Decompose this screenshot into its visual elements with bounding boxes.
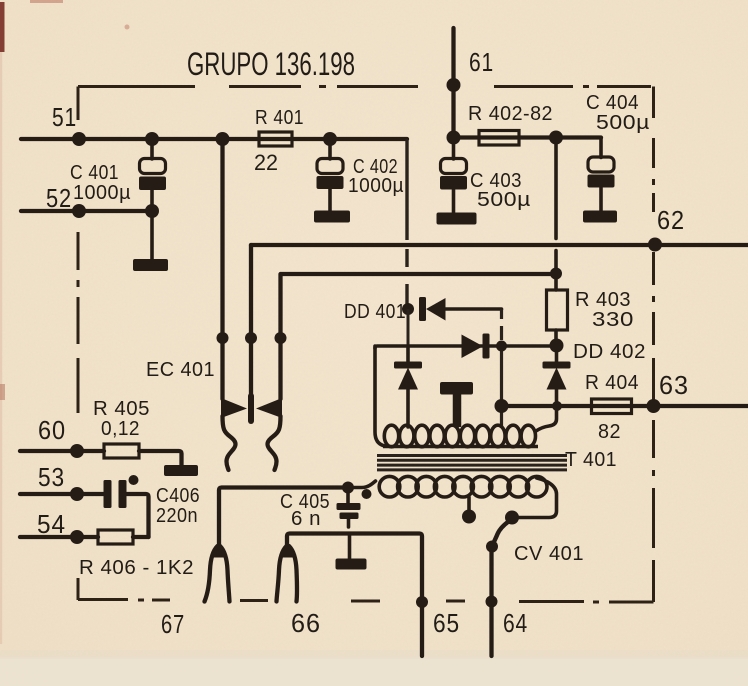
svg-text:500µ: 500µ xyxy=(596,112,650,134)
EC401 right arrow electrode xyxy=(256,398,282,418)
pin label 53 xyxy=(38,462,65,492)
wire R406 to node xyxy=(133,535,149,539)
svg-text:65: 65 xyxy=(433,608,460,638)
pin label 67 xyxy=(161,609,185,639)
transformer secondary center tap xyxy=(467,497,471,511)
wire 52 row xyxy=(21,209,152,213)
resistor R406 xyxy=(98,530,133,544)
label EC 401 xyxy=(146,359,215,381)
svg-text:1000µ: 1000µ xyxy=(73,182,131,204)
pin label 51 xyxy=(52,102,77,132)
value 1000u C402 xyxy=(348,175,404,197)
pin label 66 xyxy=(291,608,321,638)
label C 401 xyxy=(70,162,119,184)
label C406 xyxy=(156,485,200,507)
pin label 52 xyxy=(46,183,72,213)
connector fork 66 xyxy=(277,545,298,602)
wire 53 row xyxy=(20,492,104,496)
junction dot 64 boundary xyxy=(486,596,498,608)
label C 404 xyxy=(586,92,639,114)
svg-text:C 401: C 401 xyxy=(70,162,119,184)
wire DD401 corner down to winding xyxy=(500,309,503,428)
label R 402-82 xyxy=(468,103,553,125)
svg-text:63: 63 xyxy=(659,370,689,400)
svg-text:R 403: R 403 xyxy=(575,289,631,311)
label R 401 xyxy=(255,107,304,129)
wire boost row (left corner to DD402 node) xyxy=(375,346,557,348)
group boundary bottom edge (dash-dot) xyxy=(78,600,654,603)
group boundary top edge (dash-dot) xyxy=(78,85,651,88)
svg-text:61: 61 xyxy=(469,47,494,77)
junction dot C401 top xyxy=(145,132,159,146)
junction dot R403 top row xyxy=(550,268,562,280)
pin label 60 xyxy=(38,415,66,445)
resistor R402 xyxy=(479,131,519,146)
pin label 54 xyxy=(37,509,66,539)
diode D (shunt, bar top, apex up) on winding tap xyxy=(394,346,422,427)
wire 64 drop xyxy=(489,546,493,656)
transformer T401 core xyxy=(377,456,567,470)
junction dot 61 boundary xyxy=(447,78,461,92)
wire C406 to node xyxy=(127,494,149,537)
ground bar below C404 xyxy=(583,211,617,223)
wire 51 row (pin 51 to C402 corner) xyxy=(21,137,407,141)
svg-text:66: 66 xyxy=(291,608,321,638)
svg-text:GRUPO 136.198: GRUPO 136.198 xyxy=(187,46,355,82)
capacitor C405 xyxy=(337,489,361,527)
capacitor C406 plates xyxy=(104,480,127,508)
transformer T401 secondary winding xyxy=(379,476,547,497)
transformer secondary right lead xyxy=(517,478,557,518)
svg-text:CV 401: CV 401 xyxy=(514,543,584,565)
value 500u C403 xyxy=(477,189,531,211)
chassis bar right of R405 xyxy=(164,465,198,476)
resistor R405 xyxy=(104,444,139,458)
svg-text:R 405: R 405 xyxy=(93,398,150,420)
title GRUPO 136.198 xyxy=(187,46,355,82)
wire DD401a to corner xyxy=(446,307,502,311)
svg-text:51: 51 xyxy=(52,102,77,132)
junction dot 60 boundary xyxy=(70,444,84,458)
chassis bar on winding tap xyxy=(440,382,473,427)
svg-text:R 402-82: R 402-82 xyxy=(468,103,553,125)
label C 403 xyxy=(470,170,522,192)
EC401 right electrode wire (from R403 row) xyxy=(278,274,282,399)
svg-text:64: 64 xyxy=(503,608,528,638)
wire R402 node down to R403 xyxy=(554,138,558,291)
label C 405 xyxy=(280,491,330,513)
junction dot 54 boundary xyxy=(70,530,84,544)
diode DD401b (triangle pointing right, bar right) xyxy=(462,334,490,359)
wire 62 row xyxy=(251,243,748,247)
transformer primary right lead up to DD402 node xyxy=(536,406,557,431)
capacitor C401 xyxy=(139,139,166,260)
value 82 xyxy=(598,421,621,443)
svg-text:R 406 - 1K2: R 406 - 1K2 xyxy=(79,557,194,579)
junction dot R402/C404 node xyxy=(549,131,563,145)
junction dot 61/R402 xyxy=(447,131,461,145)
wire DD401 node down to shunt diode xyxy=(407,309,410,346)
wire R405 to chassis xyxy=(139,451,182,465)
junction dot DD402 top node xyxy=(550,339,564,353)
EC401 right horn lead xyxy=(267,416,280,470)
svg-text:0,12: 0,12 xyxy=(101,418,140,440)
label T 401 xyxy=(565,449,617,471)
capacitor C404 xyxy=(588,138,615,212)
EC401 left arrow electrode xyxy=(221,398,247,418)
terminal dot center tap xyxy=(462,510,476,524)
wire C402 node down to DD401 xyxy=(405,139,408,306)
ground bar below C401 xyxy=(133,259,168,271)
svg-text:53: 53 xyxy=(38,462,65,492)
junction dot C401 mid xyxy=(145,204,159,218)
junction dot EC401 left xyxy=(216,132,230,146)
svg-text:22: 22 xyxy=(254,150,278,175)
junction dot C405 node xyxy=(342,482,354,494)
svg-text:6 n: 6 n xyxy=(291,508,321,530)
junction dot boost row / DD401 drop xyxy=(496,341,507,352)
polarity dot C405 xyxy=(362,489,372,499)
wire 66 to 65 row xyxy=(287,534,422,657)
junction dot 63 boundary xyxy=(647,399,661,413)
EC401 left horn lead xyxy=(223,416,236,470)
EC401 electrode dot middle xyxy=(245,332,257,344)
diode DD401a (bar left, triangle pointing left) xyxy=(419,297,446,321)
svg-text:R 404: R 404 xyxy=(585,372,639,394)
junction dot DD402 bottom node xyxy=(552,401,562,411)
wire R402 row xyxy=(454,135,602,139)
capacitor C403 xyxy=(440,138,467,214)
wire 67 row (fork to C405 node) xyxy=(219,488,348,546)
svg-text:220n: 220n xyxy=(156,505,198,527)
junction dot 65 boundary xyxy=(416,596,428,608)
wire 54 row xyxy=(20,535,98,539)
svg-text:60: 60 xyxy=(38,415,66,445)
transformer secondary left lead xyxy=(348,481,376,488)
wire 60 row xyxy=(20,449,104,453)
svg-text:DD 401: DD 401 xyxy=(344,301,406,323)
value 220n xyxy=(156,505,198,527)
value 6 n xyxy=(291,508,321,530)
junction dot C402 top xyxy=(323,132,337,146)
svg-text:R 401: R 401 xyxy=(255,107,304,129)
ground bar below C402 xyxy=(314,211,350,223)
EC401 middle electrode wire (from wire 62) xyxy=(249,245,253,421)
pin label 63 xyxy=(659,370,689,400)
svg-text:500µ: 500µ xyxy=(477,189,531,211)
value 500u C404 xyxy=(596,112,650,134)
pin label 62 xyxy=(657,205,685,235)
ground bar below C403 xyxy=(437,213,477,225)
svg-text:82: 82 xyxy=(598,421,621,443)
svg-text:C 404: C 404 xyxy=(586,92,639,114)
resistor R404 xyxy=(592,399,632,414)
value 330 xyxy=(592,309,634,331)
svg-text:1000µ: 1000µ xyxy=(348,175,404,197)
connector fork 67 xyxy=(205,545,230,602)
wire R404 row (output 63) xyxy=(502,404,748,408)
resistor R403 xyxy=(547,290,568,341)
junction dot 51 boundary xyxy=(72,132,86,146)
label C 402 xyxy=(353,156,398,178)
junction dot R404 row left xyxy=(495,399,509,413)
EC401 left electrode wire xyxy=(220,139,224,399)
label R 406 - 1K2 xyxy=(79,557,194,579)
value 22 xyxy=(254,150,278,175)
transformer T401 primary winding xyxy=(383,425,538,447)
junction dot CV401 xyxy=(486,541,498,553)
ground below C405 xyxy=(336,534,367,570)
svg-text:T 401: T 401 xyxy=(565,449,617,471)
label R 405 xyxy=(93,398,150,420)
pin label 64 xyxy=(503,608,528,638)
label DD 401 xyxy=(344,301,406,323)
junction dot DD401 node xyxy=(402,303,414,315)
junction dot 53 boundary xyxy=(70,487,84,501)
wire boost row left leg down to primary winding xyxy=(375,346,385,446)
svg-text:C406: C406 xyxy=(156,485,200,507)
svg-text:54: 54 xyxy=(37,509,66,539)
wire CV401 branch diagonal xyxy=(493,519,513,546)
svg-text:EC 401: EC 401 xyxy=(146,359,215,381)
label R 403 xyxy=(575,289,631,311)
polarity dot C406 xyxy=(129,475,139,485)
junction dot 52 boundary xyxy=(72,204,86,218)
label CV 401 xyxy=(514,543,584,565)
svg-text:52: 52 xyxy=(46,183,72,213)
pin label 65 xyxy=(433,608,460,638)
diode DD402 (cathode bar top, triangle apex up) xyxy=(543,346,571,407)
EC401 electrode dot left xyxy=(217,332,229,344)
group boundary left edge (dash-dot) xyxy=(77,87,80,601)
wire node row to R403 xyxy=(281,272,556,276)
wire 61 drop xyxy=(451,28,455,138)
value 0,12 xyxy=(101,418,140,440)
label R 404 xyxy=(585,372,639,394)
svg-text:330: 330 xyxy=(592,309,634,331)
label DD 402 xyxy=(573,341,646,363)
group boundary right edge (dash-dot) xyxy=(652,87,655,603)
capacitor C402 xyxy=(317,139,344,211)
svg-text:67: 67 xyxy=(161,609,185,639)
svg-text:62: 62 xyxy=(657,205,685,235)
EC401 electrode dot right xyxy=(275,332,287,344)
resistor R401 xyxy=(259,132,292,146)
value 1000u C401 xyxy=(73,182,131,204)
junction dot 62 boundary xyxy=(648,238,662,252)
junction dot secondary right end xyxy=(505,511,519,525)
svg-text:DD 402: DD 402 xyxy=(573,341,646,363)
pin label 61 xyxy=(469,47,494,77)
